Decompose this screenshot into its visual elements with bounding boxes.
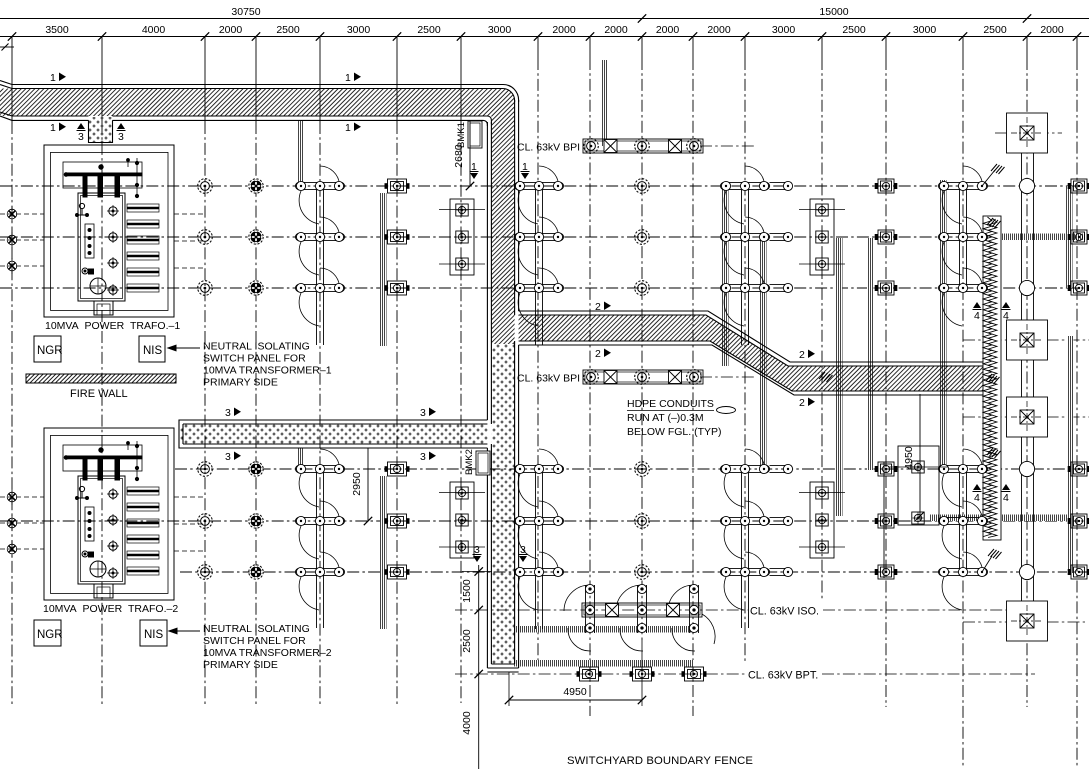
section marker 3 up left of stub: [77, 123, 86, 143]
row axis CL 63kV ISO y=610: [455, 609, 1040, 611]
transformer 10MVA TRAFO-2: [44, 428, 174, 600]
svg-text:1500: 1500: [461, 579, 473, 603]
svg-text:BELOW FGL. (TYP): BELOW FGL. (TYP): [627, 426, 722, 438]
vertical trench stippled lower part: [487, 344, 518, 672]
insulator string at (745,237): [721, 217, 793, 275]
section marker 2 above band2 right: [799, 349, 815, 361]
terminal symbol at (397,469): [385, 462, 410, 476]
terminal symbol at (397,521): [385, 514, 410, 528]
insulator string at (539,469): [515, 449, 564, 507]
earthing switch square at (1027,621): [1007, 601, 1048, 641]
svg-text:1: 1: [345, 72, 351, 84]
svg-text:2: 2: [595, 301, 601, 313]
section marker 4 up right: [1002, 302, 1011, 322]
clamp symbol at (1079,186): [1068, 179, 1089, 193]
note HDPE conduits: [627, 398, 722, 438]
section marker 2 above band2 left: [595, 301, 611, 313]
CL 63kV BPI busbar row 2: [583, 370, 703, 384]
svg-text:10MVA TRANSFORMER–1: 10MVA TRANSFORMER–1: [203, 365, 332, 377]
svg-text:4: 4: [1003, 310, 1009, 322]
svg-text:3000: 3000: [488, 24, 512, 36]
post insulator symbol at (642,288): [635, 281, 650, 296]
svg-text:2000: 2000: [604, 24, 628, 36]
post insulator symbol at (642,237): [635, 230, 650, 245]
terminal symbol at (397,186): [385, 179, 410, 193]
dimension chain 1500/2500/4000 vertical: [461, 565, 492, 769]
svg-text:3000: 3000: [772, 24, 796, 36]
insulator string at (963,469): [939, 449, 988, 507]
conduit bundle vertical x=1067: [1067, 336, 1074, 573]
note neutral isolating switch panel transformer-1: [203, 341, 332, 389]
conduit bundle vertical x=836: [836, 238, 843, 516]
svg-text:HDPE CONDUITS: HDPE CONDUITS: [627, 398, 714, 410]
bus circle at (1027,186): [1019, 178, 1034, 193]
svg-text:3: 3: [225, 407, 231, 419]
CL 63kV ISO assembly: [564, 584, 715, 651]
svg-text:1: 1: [50, 72, 56, 84]
insulator string at (963,237): [939, 217, 988, 275]
section marker 2 below band2 right: [799, 397, 815, 409]
post insulator symbol at (205,186): [198, 179, 213, 194]
transformer HV terminal at (12,497): [7, 489, 17, 505]
section marker 3 mid above stipple band: [420, 407, 436, 419]
svg-text:NIS: NIS: [144, 629, 164, 641]
clamp symbol at (1079,237): [1068, 230, 1089, 244]
conduit bundle vertical x=940: [940, 180, 947, 467]
equipment symbol at (256,521): [249, 514, 263, 528]
X box on ISO row right: [667, 604, 680, 617]
equipment symbol at (256,186): [249, 179, 263, 193]
terminal symbol at (397,237): [385, 230, 410, 244]
transformer-1 right side row stubs: [174, 214, 205, 268]
earth hatch mark near lower-right chain: [982, 549, 1002, 572]
svg-text:3: 3: [420, 407, 426, 419]
clamp symbol at (886,572): [875, 565, 898, 579]
dash axis through X-square y=133: [995, 132, 1062, 134]
svg-text:1: 1: [50, 122, 56, 134]
horizontal row axis y=288: [0, 287, 1089, 289]
svg-text:3500: 3500: [45, 24, 69, 36]
svg-text:2: 2: [799, 349, 805, 361]
clamp symbol at (886,186): [875, 179, 898, 193]
conduit bundle horizontal y=626: [514, 626, 694, 633]
horizontal row axis y=469: [175, 468, 1089, 470]
insulator string at (539,237): [515, 217, 564, 275]
svg-text:10MVA POWER TRAFO.–1: 10MVA POWER TRAFO.–1: [45, 320, 180, 332]
insulator string at (539,572): [515, 552, 564, 610]
NGR box upper: [34, 336, 61, 362]
bus circle at (1027,572): [1019, 564, 1034, 579]
conduit bundle vertical x=601: [601, 60, 608, 146]
conduit bundle vertical x=380: [380, 193, 387, 346]
svg-text:15000: 15000: [819, 6, 848, 18]
conduit bundle vertical x=722: [722, 186, 729, 366]
conduit bundle vertical x=1066: [1066, 186, 1073, 288]
insulator string at (320,186): [296, 166, 345, 224]
insulator string at (320,237): [296, 217, 345, 275]
horizontal row axis y=186: [0, 185, 1089, 187]
svg-text:4000: 4000: [142, 24, 166, 36]
double CT box at (918,446): [888, 446, 948, 525]
svg-text:PRIMARY SIDE: PRIMARY SIDE: [203, 377, 278, 389]
svg-text:2: 2: [799, 397, 805, 409]
row axis BPI-2 extension y=377: [700, 376, 757, 378]
transformer HV terminal at (12,523): [7, 515, 17, 531]
post insulator symbol at (642,572): [635, 565, 650, 580]
NGR box lower: [34, 620, 61, 646]
post insulator symbol at (205,469): [198, 462, 213, 477]
leader ellipse on conduit bundle: [717, 407, 736, 414]
row axis CL 63kV BPT y=674: [455, 673, 1035, 675]
horizontal row axis y=237: [0, 236, 1089, 238]
clamp symbol at (1079,521): [1068, 514, 1089, 528]
connector line x=884: [883, 462, 885, 578]
clamp symbol at (1079,288): [1068, 281, 1089, 295]
svg-text:4: 4: [974, 310, 980, 322]
section marker 4 up lower-left: [973, 484, 982, 504]
section marker 3 left above stipple band: [225, 407, 241, 419]
post insulator symbol at (205,572): [198, 565, 213, 580]
section marker 1 down left of trench: [470, 161, 479, 179]
NIS box lower: [140, 620, 167, 646]
support post double line x=745: [742, 473, 749, 628]
conduit bundle horizontal y=660: [514, 660, 694, 667]
dimension 2680 vertical: [453, 120, 474, 190]
earth hatch mark near band 2: [819, 372, 833, 382]
svg-text:NGR: NGR: [37, 629, 63, 641]
clamp symbol at (886,521): [875, 514, 898, 528]
dimension 2950 vertical: [351, 448, 372, 525]
support post double line x=1027: [1022, 152, 1034, 602]
transformer HV terminal at (12,549): [7, 541, 17, 557]
equipment symbol at (256,572): [249, 565, 263, 579]
insulator string at (320,469): [296, 449, 345, 507]
svg-text:3000: 3000: [347, 24, 371, 36]
bus circle at (1027,469): [1019, 461, 1034, 476]
svg-text:2950: 2950: [351, 472, 363, 496]
svg-text:RUN AT (–)0.3M: RUN AT (–)0.3M: [627, 412, 704, 424]
section marker 2 below band2 left: [595, 348, 611, 360]
svg-text:2000: 2000: [552, 24, 576, 36]
svg-text:CL. 63kV BPI: CL. 63kV BPI: [517, 373, 580, 385]
vertical trench hatched upper part: [487, 100, 518, 668]
transformer-2 right side row stubs: [174, 497, 205, 551]
svg-text:CL. 63kV BPI: CL. 63kV BPI: [517, 142, 580, 154]
CL 63kV BPI busbar row 1: [583, 139, 703, 153]
insulator string at (963,572): [939, 552, 988, 610]
dash axis through X-square y=417: [963, 416, 1089, 418]
terminal symbol at (397,572): [385, 565, 410, 579]
svg-text:FIRE WALL: FIRE WALL: [70, 388, 128, 400]
svg-text:30750: 30750: [231, 6, 260, 18]
svg-text:2500: 2500: [842, 24, 866, 36]
post insulator symbol at (205,288): [198, 281, 213, 296]
svg-text:NGR: NGR: [37, 345, 63, 357]
support post double line x=963: [960, 473, 967, 572]
conduit bundle vertical x=380: [380, 476, 387, 629]
svg-text:2500: 2500: [461, 629, 473, 653]
section marker 4 up left: [973, 302, 982, 322]
zig-zag flexible conduit strip: [983, 216, 1001, 540]
row axis BPI-1 extension y=146: [700, 145, 757, 147]
second dimension line with bay dimensions: [0, 24, 1089, 41]
BMK1 marker box: [468, 121, 482, 148]
insulator string at (745,469): [721, 449, 793, 507]
support post double line x=539: [536, 473, 543, 629]
svg-text:2000: 2000: [707, 24, 731, 36]
svg-text:CL. 63kV BPT.: CL. 63kV BPT.: [748, 670, 818, 682]
earthing switch square at (1027,417): [1007, 397, 1048, 437]
dash axis through X-square y=622: [963, 621, 1085, 623]
terminal symbol at (397,288): [385, 281, 410, 295]
dimension 4950 horizontal bottom: [505, 640, 646, 706]
svg-text:NIS: NIS: [143, 345, 163, 357]
svg-text:PRIMARY SIDE: PRIMARY SIDE: [203, 659, 278, 671]
insulator string at (745,572): [721, 552, 793, 610]
trench stub with stipple below band 1: [89, 117, 113, 143]
transformer HV terminal at (12,240): [7, 232, 17, 248]
section marker 1 top-mid: [345, 72, 361, 84]
conduit bundle vertical x=760: [760, 237, 767, 469]
hatch mark on conduit top: [987, 218, 1001, 228]
conduit bundle horizontal y=233.5: [1000, 234, 1086, 241]
CT stack at column 822 upper: [799, 199, 845, 275]
hatch mark on conduit middle: [986, 374, 1000, 384]
svg-text:2: 2: [595, 348, 601, 360]
section marker 3 down right of trench: [519, 544, 528, 562]
svg-text:NEUTRAL ISOLATING: NEUTRAL ISOLATING: [203, 341, 310, 353]
svg-text:4: 4: [974, 492, 980, 504]
bus circle at (1027,288): [1019, 280, 1034, 295]
support post double line x=745: [742, 190, 749, 345]
horizontal row axis y=572: [180, 571, 1089, 573]
support post double line x=320: [317, 473, 324, 628]
earthing switch square at (1027,340): [1007, 320, 1048, 360]
svg-text:3: 3: [225, 451, 231, 463]
horizontal stippled trench to transformers (section 3-3): [179, 420, 487, 448]
section marker 1 below band mid: [345, 122, 361, 134]
insulator string at (745,186): [721, 166, 793, 224]
cable trench hatched band 2 (section 2-2): [519, 311, 984, 395]
post insulator symbol at (205,521): [198, 514, 213, 529]
insulator string at (320,288): [296, 268, 345, 326]
leader arrow to NIS lower: [169, 628, 200, 634]
insulator string at (539,288): [515, 268, 564, 326]
clamp symbol at (1079,572): [1068, 565, 1089, 579]
transformer-2 HV row stubs: [0, 497, 44, 549]
svg-text:2500: 2500: [417, 24, 441, 36]
svg-text:4950: 4950: [563, 686, 587, 698]
transformer HV terminal at (12,214): [7, 206, 17, 222]
svg-text:1: 1: [345, 122, 351, 134]
insulator string at (963,521): [939, 501, 988, 559]
NIS box upper: [139, 336, 165, 362]
svg-text:3000: 3000: [913, 24, 937, 36]
insulator string at (539,186): [515, 166, 564, 224]
conduit bundle vertical x=297: [297, 120, 304, 186]
svg-text:4000: 4000: [461, 711, 473, 735]
clamp symbol at (1079,469): [1068, 462, 1089, 476]
insulator string at (963,288): [939, 268, 988, 326]
section marker 1 top-left: [50, 72, 66, 84]
section marker 3 left below stipple band: [225, 451, 241, 463]
section marker 1 below band left: [50, 122, 66, 134]
svg-text:10MVA POWER TRAFO.–2: 10MVA POWER TRAFO.–2: [43, 603, 178, 615]
earth hatch mark near top-right chain: [982, 164, 1005, 186]
fire wall hatched strip: [26, 374, 176, 383]
svg-text:SWITCH PANEL FOR: SWITCH PANEL FOR: [203, 353, 306, 365]
insulator string at (539,521): [515, 501, 564, 559]
svg-text:CL. 63kV ISO.: CL. 63kV ISO.: [750, 606, 819, 618]
conduit bundle vertical x=297: [297, 448, 304, 469]
section marker 3 mid below stipple band: [420, 451, 436, 463]
earthing switch square at (1027,133): [1007, 113, 1048, 153]
insulator string at (320,521): [296, 501, 345, 559]
BMK2 marker box: [476, 451, 490, 475]
svg-text:2500: 2500: [983, 24, 1007, 36]
clamp symbol at (886,237): [875, 230, 898, 244]
svg-text:3: 3: [118, 131, 124, 143]
dimension 4950 vertical right: [903, 394, 924, 521]
svg-text:2000: 2000: [219, 24, 243, 36]
svg-text:2680: 2680: [453, 144, 465, 168]
svg-text:10MVA TRANSFORMER–2: 10MVA TRANSFORMER–2: [203, 647, 332, 659]
svg-text:NEUTRAL ISOLATING: NEUTRAL ISOLATING: [203, 623, 310, 635]
transformer HV terminal at (12,266): [7, 258, 17, 274]
post insulator symbol at (205,237): [198, 230, 213, 245]
section marker 3 up right of stub: [117, 123, 126, 143]
svg-text:BMK1: BMK1: [456, 122, 467, 148]
equipment symbol at (256,288): [249, 281, 263, 295]
top dimension line 30750/15000: [0, 6, 1089, 23]
section marker 3 down left of trench: [473, 544, 482, 562]
insulator string at (745,288): [721, 268, 793, 326]
svg-text:4950: 4950: [903, 446, 915, 470]
horizontal row axis y=521: [0, 520, 1089, 522]
left edge continuation marks: [0, 44, 14, 51]
post insulator symbol at (642,469): [635, 462, 650, 477]
transformer-1 HV row stubs: [0, 214, 44, 266]
svg-text:2500: 2500: [276, 24, 300, 36]
insulator string at (320,572): [296, 552, 345, 610]
section marker 1 down right of trench: [521, 161, 530, 179]
svg-text:2000: 2000: [1040, 24, 1064, 36]
conduit bundle horizontal y=514.5: [930, 515, 1070, 522]
insulator string at (963,186): [939, 166, 988, 224]
CL 63kV BPT symbols: [577, 667, 707, 681]
CT stack at column 461 upper: [439, 199, 485, 275]
equipment symbol at (256,237): [249, 230, 263, 244]
svg-text:2000: 2000: [656, 24, 680, 36]
svg-text:SWITCHYARD BOUNDARY FENCE: SWITCHYARD BOUNDARY FENCE: [567, 755, 753, 767]
clamp symbol at (886,469): [875, 462, 898, 476]
post insulator symbol at (642,521): [635, 514, 650, 529]
clamp symbol at (886,288): [875, 281, 898, 295]
conduit bundle vertical x=867: [867, 238, 874, 470]
CT stack at column 461 lower: [439, 482, 485, 558]
svg-text:4: 4: [1003, 492, 1009, 504]
post insulator symbol at (642,186): [635, 179, 650, 194]
leader arrow to NIS upper: [168, 345, 200, 351]
support post double line x=963: [960, 190, 967, 288]
support post double line x=320: [317, 190, 324, 345]
svg-text:BMK2: BMK2: [464, 449, 475, 475]
CT stack at column 822 lower: [799, 482, 845, 558]
support post double line x=539: [536, 190, 543, 345]
hatch mark on conduit lower: [987, 448, 1001, 458]
svg-text:SWITCH PANEL FOR: SWITCH PANEL FOR: [203, 635, 306, 647]
svg-text:3: 3: [420, 451, 426, 463]
cable trench hatched band top (section 1-1): [0, 81, 519, 127]
dash axis through X-square y=340: [963, 339, 1089, 341]
X box on ISO row left: [606, 604, 619, 617]
insulator string at (745,521): [721, 501, 793, 559]
note neutral isolating switch panel transformer-2: [203, 623, 332, 671]
equipment symbol at (256,469): [249, 462, 263, 476]
svg-text:3: 3: [78, 131, 84, 143]
section marker 4 up lower-right: [1002, 484, 1011, 504]
